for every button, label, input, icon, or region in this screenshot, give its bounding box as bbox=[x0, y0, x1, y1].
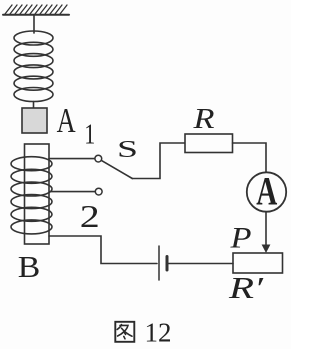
svg-text:A: A bbox=[256, 168, 277, 213]
svg-text:1: 1 bbox=[84, 119, 95, 151]
svg-text:P: P bbox=[229, 223, 251, 255]
svg-text:12: 12 bbox=[145, 318, 172, 348]
svg-text:R′: R′ bbox=[228, 270, 265, 305]
svg-text:B: B bbox=[18, 249, 41, 284]
svg-text:S: S bbox=[117, 136, 138, 163]
svg-text:2: 2 bbox=[80, 198, 100, 234]
svg-text:A: A bbox=[57, 101, 77, 140]
svg-text:R: R bbox=[192, 103, 215, 135]
